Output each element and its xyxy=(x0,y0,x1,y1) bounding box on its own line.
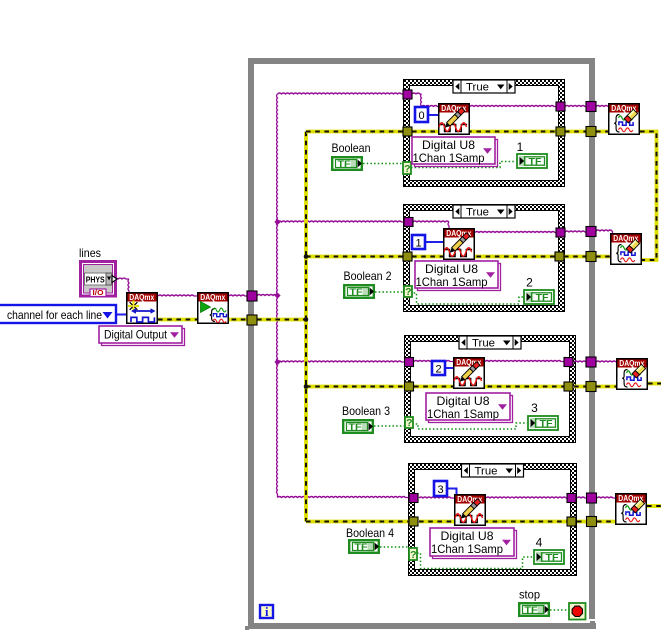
svg-text:TF: TF xyxy=(350,287,363,298)
svg-text:0: 0 xyxy=(418,110,424,122)
svg-text:1Chan 1Samp: 1Chan 1Samp xyxy=(427,408,499,421)
svg-text:TF: TF xyxy=(525,605,538,616)
svg-text:?: ? xyxy=(410,549,416,561)
svg-text:1Chan 1Samp: 1Chan 1Samp xyxy=(413,152,485,165)
svg-text:True: True xyxy=(472,337,495,349)
svg-text:Digital U8: Digital U8 xyxy=(425,263,478,276)
svg-text:Digital U8: Digital U8 xyxy=(441,530,494,543)
svg-text:1: 1 xyxy=(415,238,421,250)
svg-text:TF: TF xyxy=(540,419,553,430)
svg-text:I/O: I/O xyxy=(93,290,105,297)
svg-text:TF: TF xyxy=(529,157,542,168)
svg-text:1Chan 1Samp: 1Chan 1Samp xyxy=(416,276,488,289)
svg-text:channel for each line: channel for each line xyxy=(7,308,102,322)
svg-text:Digital U8: Digital U8 xyxy=(422,139,475,152)
svg-text:?: ? xyxy=(405,286,411,298)
svg-text:TF: TF xyxy=(338,159,351,170)
svg-text:2: 2 xyxy=(526,276,533,290)
svg-text:Digital Output: Digital Output xyxy=(104,329,168,342)
svg-text:Boolean: Boolean xyxy=(332,141,371,155)
svg-text:1Chan 1Samp: 1Chan 1Samp xyxy=(431,543,503,556)
svg-text:?: ? xyxy=(404,163,410,175)
svg-text:i: i xyxy=(265,605,269,619)
svg-text:3: 3 xyxy=(437,484,443,496)
svg-text:Boolean 3: Boolean 3 xyxy=(342,404,390,418)
svg-text:True: True xyxy=(466,206,489,218)
svg-text:DAQmx: DAQmx xyxy=(200,293,226,302)
svg-text:Boolean 2: Boolean 2 xyxy=(344,269,392,283)
svg-text:True: True xyxy=(466,81,489,93)
svg-text:3: 3 xyxy=(531,401,538,415)
svg-text:TF: TF xyxy=(355,542,368,553)
svg-text:2: 2 xyxy=(435,364,441,376)
svg-text:TF: TF xyxy=(349,422,362,433)
svg-text:1: 1 xyxy=(517,140,524,154)
svg-text:TF: TF xyxy=(536,293,549,304)
svg-text:TF: TF xyxy=(546,553,559,564)
svg-text:Boolean 4: Boolean 4 xyxy=(346,526,394,540)
svg-text:True: True xyxy=(475,465,498,477)
svg-text:PHYS: PHYS xyxy=(86,274,105,284)
svg-text:lines: lines xyxy=(79,246,101,260)
svg-text:?: ? xyxy=(406,417,412,429)
svg-text:Digital U8: Digital U8 xyxy=(437,395,490,408)
svg-text:stop: stop xyxy=(519,588,540,602)
svg-text:4: 4 xyxy=(536,536,543,550)
